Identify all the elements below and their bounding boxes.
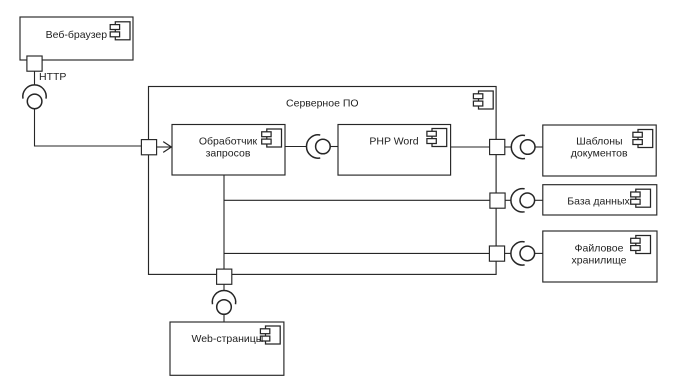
- svg-text:Веб-браузер: Веб-браузер: [46, 29, 108, 41]
- svg-text:Обработчик: Обработчик: [199, 135, 258, 147]
- svg-text:Серверное ПО: Серверное ПО: [286, 98, 359, 110]
- svg-text:запросов: запросов: [206, 148, 251, 160]
- svg-text:Web-страницы: Web-страницы: [191, 333, 263, 345]
- svg-text:База данных: База данных: [567, 196, 630, 208]
- svg-text:HTTP: HTTP: [39, 71, 66, 83]
- svg-text:документов: документов: [571, 148, 628, 160]
- svg-text:Шаблоны: Шаблоны: [576, 135, 622, 147]
- svg-text:хранилище: хранилище: [572, 255, 627, 267]
- svg-text:Файловое: Файловое: [575, 242, 624, 254]
- svg-text:PHP Word: PHP Word: [369, 136, 418, 148]
